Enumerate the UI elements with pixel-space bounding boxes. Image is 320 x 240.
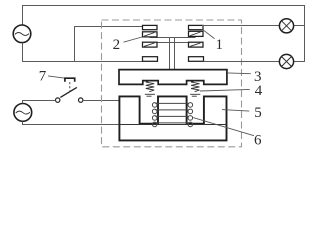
wire contact stack to lamp HL2: [204, 61, 280, 63]
svg-text:1: 1: [215, 37, 223, 53]
contact hatch right rect2: [190, 32, 201, 36]
AC source G1 top-left: [13, 25, 31, 43]
svg-text:5: 5: [254, 105, 262, 121]
wire lamp HL2 to right edge: [294, 61, 305, 63]
switch blade: [60, 87, 77, 97]
armature bar 3: [119, 70, 227, 85]
wire lamp HL1 to right edge: [294, 25, 305, 27]
contact stack 2 (left): [143, 25, 158, 61]
wire W2 between contact stacks: [150, 42, 196, 44]
core base line: [119, 124, 226, 126]
AC source G2 bottom-left: [14, 104, 32, 122]
wire G1 bottom to left contact stack bottom: [23, 43, 143, 62]
wire contact stack to lamp HL1: [202, 25, 279, 27]
wire G2 bottom to core: [23, 121, 120, 124]
wire branch to top contacts: [75, 27, 143, 62]
svg-text:4: 4: [255, 83, 263, 99]
svg-text:6: 6: [254, 132, 262, 148]
label 6 leader: [193, 118, 254, 136]
label 7 leader: [48, 76, 64, 78]
dashed enclosure: [102, 20, 242, 147]
label 1 leader: [202, 29, 214, 38]
label 3 leader: [227, 72, 251, 75]
wire switch to core: [83, 100, 120, 102]
coil 6: [152, 103, 192, 127]
lamp HL1: [279, 19, 293, 33]
spring 4a: [145, 81, 155, 96]
contact stack 1 (right): [189, 25, 204, 61]
switch terminal right: [79, 98, 83, 102]
label 5 leader: [222, 110, 249, 112]
contact hatch right rect3: [190, 43, 201, 47]
label 4 leader: [200, 89, 250, 91]
spring 4b: [190, 81, 200, 96]
wire top bus and right edge: [23, 6, 305, 62]
contact hatch left rect3: [144, 43, 155, 47]
wire vertical B to armature: [174, 38, 176, 70]
label 2 leader: [124, 37, 143, 42]
lamp HL2: [279, 54, 293, 68]
wire W1 between contact stacks: [150, 37, 196, 39]
wire G2 top to switch: [23, 101, 56, 104]
wire vertical A to armature: [169, 38, 171, 70]
switch linkage dashed: [69, 82, 71, 91]
svg-text:2: 2: [113, 37, 121, 53]
switch terminal left: [56, 98, 60, 102]
contact hatch left rect2: [144, 33, 155, 37]
svg-text:7: 7: [39, 68, 47, 84]
electromagnet core 5: [119, 96, 226, 140]
switch S fixed contact bracket: [65, 78, 75, 82]
